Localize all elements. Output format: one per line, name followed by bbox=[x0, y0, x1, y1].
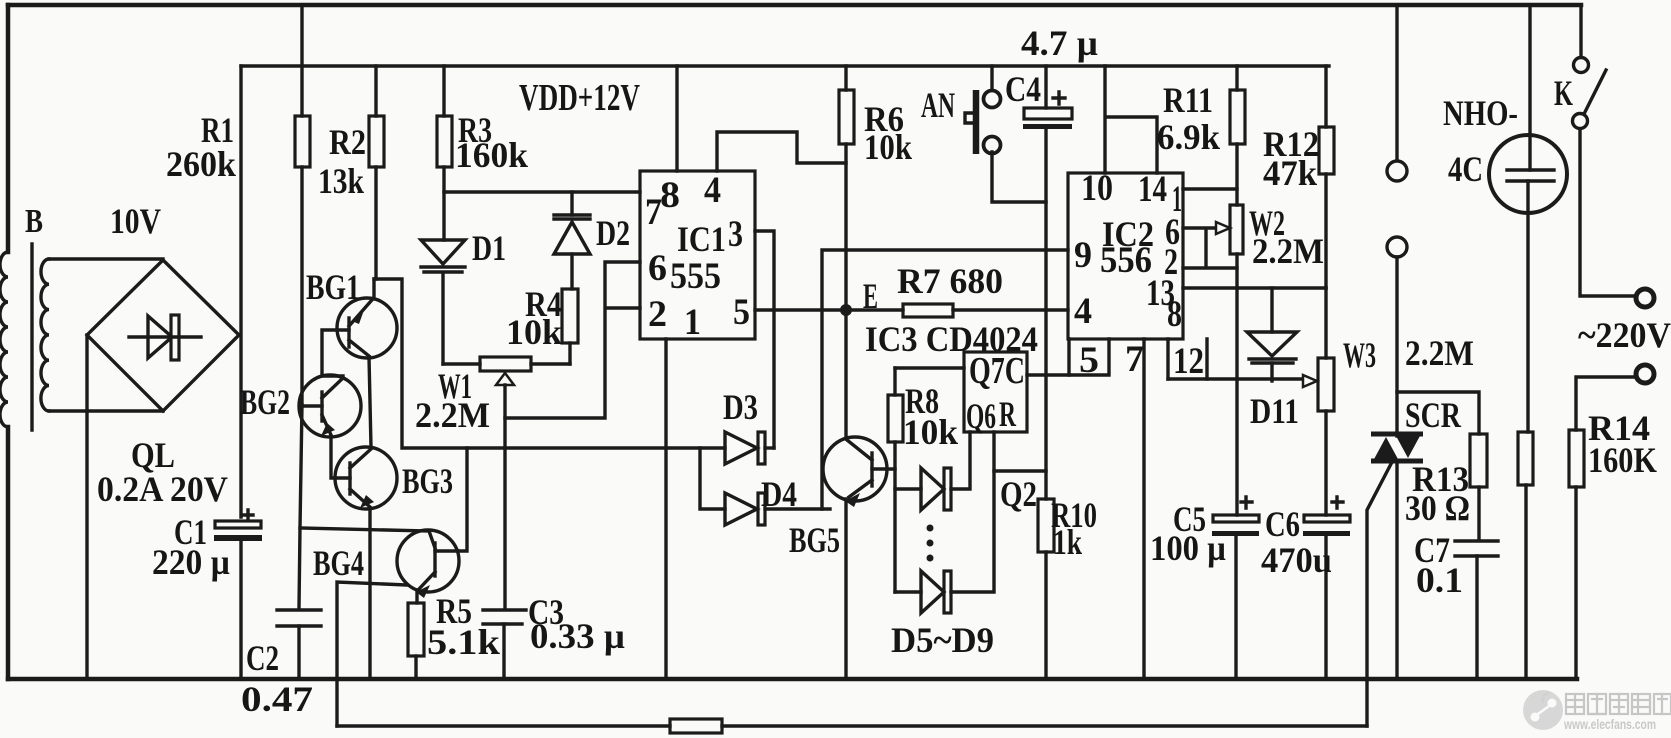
wire IC1 pin7 line bbox=[444, 190, 640, 193]
svg-text:13k: 13k bbox=[318, 161, 364, 201]
svg-text:10k: 10k bbox=[903, 412, 958, 452]
svg-text:R2: R2 bbox=[329, 122, 366, 162]
capacitor C5 bbox=[1212, 497, 1259, 679]
svg-text:BG4: BG4 bbox=[313, 543, 364, 583]
wire SCR gate bbox=[1367, 462, 1392, 726]
wire D4 branch bbox=[700, 448, 725, 509]
capacitor C4 bbox=[1023, 66, 1072, 499]
svg-text:10V: 10V bbox=[110, 201, 161, 241]
wire bridge plus riser / VDD feed bbox=[239, 66, 242, 517]
svg-text:555: 555 bbox=[670, 256, 721, 297]
wire IC2 pin13 line bbox=[1183, 286, 1326, 289]
wire lower terminal to R14 bbox=[1576, 377, 1635, 430]
wire wiper to IC1 pins 2 6 bbox=[505, 262, 640, 418]
svg-text:0.2A 20V: 0.2A 20V bbox=[97, 469, 228, 509]
diode D2 bbox=[554, 192, 590, 289]
capacitor C3 bbox=[483, 610, 526, 679]
wire BG5 emitter to ground bbox=[844, 499, 847, 679]
svg-text:9: 9 bbox=[1074, 235, 1092, 276]
svg-text:Q7C: Q7C bbox=[969, 350, 1025, 392]
watermark text bbox=[1563, 694, 1671, 732]
IC2 pin7 bbox=[1125, 339, 1144, 679]
wire snubber branch bbox=[1397, 392, 1479, 434]
svg-text:100 µ: 100 µ bbox=[1150, 528, 1226, 568]
watermark logo bbox=[1523, 690, 1563, 730]
diode D11 bbox=[1247, 288, 1297, 381]
svg-text:10: 10 bbox=[1081, 168, 1113, 209]
svg-text:BG2: BG2 bbox=[240, 382, 290, 422]
wire R1 node down to C2 bbox=[299, 405, 302, 608]
diode D5 bbox=[895, 432, 970, 510]
wire IC1 pin1 to ground bbox=[664, 339, 667, 679]
wire IC2 pin1 stub bbox=[1183, 187, 1237, 190]
wire left border upper bbox=[6, 5, 11, 252]
node E bbox=[840, 304, 852, 316]
svg-text:C4: C4 bbox=[1005, 69, 1041, 109]
capacitor C7 bbox=[1455, 541, 1498, 679]
wire plug connector top bbox=[1395, 5, 1398, 160]
wire BG4 emitter to R5 bbox=[415, 590, 418, 603]
svg-text:5: 5 bbox=[733, 292, 750, 333]
svg-text:4C: 4C bbox=[1448, 149, 1483, 189]
resistor R2 bbox=[369, 66, 384, 299]
svg-text:160K: 160K bbox=[1588, 440, 1657, 480]
svg-text:220 µ: 220 µ bbox=[152, 542, 230, 582]
diode D9 bbox=[895, 432, 994, 613]
wire R11 branch to C5 bbox=[1235, 254, 1238, 515]
resistor R6 bbox=[839, 66, 854, 310]
svg-text:R7 680: R7 680 bbox=[897, 261, 1003, 301]
transistor BG2 bbox=[299, 375, 361, 478]
svg-text:2.2M: 2.2M bbox=[415, 395, 490, 435]
wire BG1 collector to BG3 bbox=[369, 357, 371, 447]
svg-text:0.1: 0.1 bbox=[1416, 560, 1463, 600]
svg-text:2.2M: 2.2M bbox=[1405, 333, 1474, 373]
wire plug to SCR bbox=[1395, 257, 1398, 436]
switch K bbox=[1573, 5, 1635, 296]
wire bridge minus to ground bbox=[85, 335, 88, 679]
svg-text:8: 8 bbox=[1167, 294, 1182, 335]
resistor R5 bbox=[408, 603, 424, 679]
transistor BG3 bbox=[335, 447, 397, 679]
wire secondary to bridge top bbox=[49, 257, 163, 260]
wire bottom ground rail bbox=[8, 677, 1577, 682]
diode D1 bbox=[421, 240, 465, 364]
capacitor C2 bbox=[277, 610, 321, 679]
resistor R1 bbox=[295, 5, 310, 405]
svg-text:Q6: Q6 bbox=[966, 396, 996, 436]
svg-text:10k: 10k bbox=[506, 312, 562, 352]
pushbutton AN bbox=[965, 66, 1046, 202]
wire R4 to W1 bbox=[531, 362, 570, 365]
wire main D3 D4 feeder line bbox=[374, 279, 725, 448]
svg-text:B: B bbox=[25, 203, 43, 240]
svg-text:D3: D3 bbox=[723, 387, 758, 427]
potentiometer W2 bbox=[1230, 205, 1243, 254]
resistor R3 bbox=[437, 66, 452, 240]
potentiometer W3 bbox=[1318, 288, 1334, 515]
wire BG4 emitter left branch bbox=[337, 582, 407, 726]
IC3 output box Q7C Q6R bbox=[964, 350, 1027, 436]
IC1 555 bbox=[640, 170, 755, 343]
triac SCR bbox=[1371, 434, 1423, 679]
svg-text:K: K bbox=[1554, 73, 1573, 113]
svg-text:SCR: SCR bbox=[1405, 395, 1462, 435]
svg-text:6: 6 bbox=[648, 248, 667, 289]
transformer core bbox=[30, 244, 33, 430]
resistor R7 bbox=[846, 304, 1068, 317]
plug contact lower bbox=[1387, 237, 1407, 257]
diode D4 bbox=[725, 493, 830, 525]
svg-text:7: 7 bbox=[645, 192, 662, 233]
svg-text:160k: 160k bbox=[455, 135, 528, 175]
svg-text:BG3: BG3 bbox=[402, 461, 453, 501]
wire secondary to bridge bottom bbox=[49, 409, 163, 412]
svg-text:0.47: 0.47 bbox=[241, 679, 313, 719]
wire IC1 pin4 step to R6 node bbox=[717, 132, 846, 171]
svg-text:3: 3 bbox=[728, 214, 743, 255]
wire D4 to IC2 pin9 riser bbox=[822, 250, 1068, 509]
svg-text:W3: W3 bbox=[1343, 335, 1376, 375]
svg-text:7: 7 bbox=[1125, 339, 1144, 380]
transformer B secondary winding bbox=[41, 259, 49, 411]
dots D6 D7 D8 bbox=[927, 525, 934, 562]
resistor R11 bbox=[1230, 66, 1245, 205]
svg-text:5.1k: 5.1k bbox=[427, 622, 500, 662]
resistor R13 bbox=[1470, 434, 1487, 539]
svg-text:BG5: BG5 bbox=[789, 520, 840, 560]
svg-text:2.2M: 2.2M bbox=[1252, 231, 1324, 271]
IC2 pin12 tab bbox=[1168, 339, 1303, 382]
wire left border lower bbox=[6, 427, 11, 679]
svg-text:470u: 470u bbox=[1261, 540, 1332, 580]
svg-text:D11: D11 bbox=[1250, 391, 1299, 431]
svg-text:47k: 47k bbox=[1263, 153, 1317, 193]
svg-text:~220V: ~220V bbox=[1578, 315, 1671, 355]
terminal 220V lower bbox=[1636, 365, 1654, 383]
svg-text:10k: 10k bbox=[864, 127, 912, 167]
svg-text:D4: D4 bbox=[761, 474, 797, 514]
capacitor C1 bbox=[214, 510, 262, 679]
svg-text:8: 8 bbox=[660, 175, 680, 216]
svg-text:BG1: BG1 bbox=[306, 267, 360, 307]
transformer B primary winding bbox=[0, 252, 8, 427]
resistor R8 bbox=[888, 368, 903, 592]
wire Q7C to pin5 tab bbox=[1027, 373, 1069, 376]
transistor BG5 bbox=[823, 437, 895, 507]
svg-text:D1: D1 bbox=[472, 228, 506, 268]
transistor BG1 bbox=[322, 298, 397, 376]
gate series resistor bbox=[670, 719, 722, 733]
plug contact upper bbox=[1387, 161, 1407, 181]
wire IC1 pin5 to E bbox=[755, 308, 846, 311]
wire SCR gate bottom run bbox=[337, 724, 1367, 727]
svg-text:4: 4 bbox=[704, 170, 721, 211]
IC2 556 bbox=[1068, 168, 1183, 339]
wire IC1 pin8 to VDD bbox=[675, 66, 678, 171]
wire BG4 collector riser bbox=[458, 448, 467, 551]
svg-text:AN: AN bbox=[921, 85, 955, 125]
svg-text:1: 1 bbox=[684, 302, 701, 343]
diode D3 bbox=[725, 432, 774, 464]
resistor R10 bbox=[1038, 499, 1054, 679]
svg-text:0.33 µ: 0.33 µ bbox=[530, 616, 625, 656]
svg-text:5: 5 bbox=[1079, 340, 1099, 381]
svg-text:30 Ω: 30 Ω bbox=[1405, 488, 1470, 528]
resistor R12 bbox=[1319, 66, 1334, 288]
svg-text:2: 2 bbox=[648, 294, 667, 335]
svg-text:C2: C2 bbox=[246, 638, 279, 678]
wire VDD +12V rail bbox=[241, 64, 1329, 67]
svg-text:14: 14 bbox=[1138, 169, 1167, 210]
svg-text:1k: 1k bbox=[1053, 522, 1082, 562]
svg-text:556: 556 bbox=[1100, 240, 1152, 281]
svg-text:IC1: IC1 bbox=[677, 219, 726, 259]
transistor BG4 bbox=[397, 530, 459, 598]
svg-text:12: 12 bbox=[1173, 341, 1204, 382]
svg-text:Q2: Q2 bbox=[1000, 474, 1037, 514]
svg-text:260k: 260k bbox=[166, 144, 236, 184]
IC2 pin5 tab bbox=[1069, 339, 1109, 381]
wire IC1 pin3 to D3 bbox=[755, 231, 774, 448]
wire top mains border bbox=[8, 3, 1581, 8]
resistor neon series bbox=[1518, 432, 1533, 679]
wire R8 to Q7C box bbox=[895, 366, 964, 369]
potentiometer W1 bbox=[480, 357, 531, 608]
wire Q6 node to R10 bbox=[994, 469, 1046, 472]
bridge rectifier QL bbox=[87, 260, 239, 411]
svg-text:R: R bbox=[999, 394, 1017, 434]
svg-text:D5~D9: D5~D9 bbox=[891, 620, 994, 660]
wire IC2 pin10 pin14 to VDD bbox=[1105, 66, 1157, 173]
svg-text:www.elecfans.com: www.elecfans.com bbox=[1563, 716, 1656, 732]
svg-text:NHO-: NHO- bbox=[1443, 93, 1518, 133]
svg-text:6.9k: 6.9k bbox=[1157, 117, 1220, 157]
svg-text:4: 4 bbox=[1074, 291, 1092, 332]
svg-text:C6: C6 bbox=[1265, 504, 1300, 544]
terminal 220V upper bbox=[1636, 289, 1654, 307]
wire D1 to W1 bbox=[443, 362, 480, 365]
W2 wiper arrow bbox=[1216, 222, 1230, 234]
neon lamp NH0-4C bbox=[1489, 5, 1567, 432]
capacitor C6 bbox=[1303, 497, 1350, 679]
svg-text:R11: R11 bbox=[1163, 80, 1213, 120]
wire W3 wiper arrow bbox=[1303, 375, 1317, 387]
svg-text:D2: D2 bbox=[596, 213, 630, 253]
wire BG4 base line bbox=[300, 528, 429, 531]
resistor R14 bbox=[1569, 430, 1584, 679]
wire IC2 pin6 wiper and pin2 stub bbox=[1183, 228, 1237, 268]
svg-text:VDD+12V: VDD+12V bbox=[519, 77, 640, 119]
resistor R4 bbox=[562, 289, 578, 364]
wire BG5 collector to E bbox=[844, 310, 847, 438]
svg-text:4.7 µ: 4.7 µ bbox=[1021, 23, 1098, 63]
